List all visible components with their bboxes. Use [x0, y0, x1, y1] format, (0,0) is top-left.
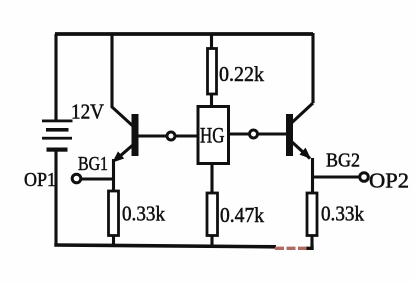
- wire BG2 collector riser: [311, 33, 314, 103]
- wire R4 to bottom rail: [310, 236, 313, 249]
- svg-text:0.33k: 0.33k: [321, 202, 364, 226]
- svg-text:BG1: BG1: [78, 154, 108, 175]
- wire R3 to bottom rail: [210, 236, 213, 247]
- svg-text:12V: 12V: [71, 100, 104, 124]
- wire mid riser: [210, 33, 213, 49]
- wire left rail lower: [54, 152, 57, 247]
- transistor Q2 BG2: [286, 103, 313, 193]
- battery B1 12V: [42, 120, 73, 152]
- svg-text:0.22k: 0.22k: [219, 62, 264, 86]
- resistor R4 0.33k right: [307, 193, 317, 236]
- wire top rail: [55, 32, 313, 36]
- wire left rail upper: [54, 34, 57, 120]
- wire red elbow at right corner: [310, 244, 313, 248]
- hall generator U1 HG: [198, 107, 229, 164]
- node contact right: [250, 130, 258, 138]
- node contact left: [167, 132, 175, 140]
- svg-text:BG2: BG2: [326, 151, 360, 172]
- wire HG to BG2 base: [229, 132, 287, 135]
- wire bottom rail: [54, 245, 276, 247]
- svg-text:OP2: OP2: [369, 169, 409, 193]
- svg-text:OP1: OP1: [24, 169, 56, 191]
- wire bottom rail right corner: [307, 247, 314, 250]
- transistor Q1 BG1: [112, 114, 138, 193]
- terminal OP2: [312, 175, 360, 178]
- wire BG1 base to HG: [139, 134, 199, 137]
- wire R1 to bottom rail: [112, 236, 115, 247]
- wire R2 to HG: [210, 94, 213, 107]
- svg-text:HG: HG: [200, 123, 225, 148]
- wire HG bottom: [210, 164, 213, 195]
- wire bottom rail red dashed segment: [275, 247, 308, 250]
- wire BG1 collector riser: [112, 33, 135, 128]
- svg-text:0.47k: 0.47k: [220, 203, 264, 227]
- resistor R2 0.22k: [208, 49, 217, 95]
- terminal OP1: [81, 177, 114, 180]
- svg-text:0.33k: 0.33k: [122, 202, 165, 226]
- resistor R3 0.47k: [207, 193, 218, 236]
- resistor R1 0.33k left: [109, 191, 119, 236]
